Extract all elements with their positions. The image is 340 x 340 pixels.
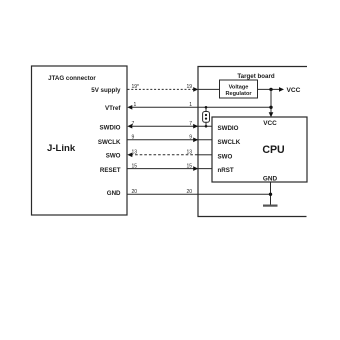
svg-text:9: 9 [189,135,192,141]
svg-text:SWO: SWO [218,154,233,161]
pin label 5V supply [91,87,121,94]
svg-text:5V supply: 5V supply [91,87,121,94]
JTAG connector title [48,75,96,82]
pin label SWO [106,153,121,160]
pin number 19* left [132,84,140,90]
svg-text:15: 15 [132,163,138,169]
Target board title [237,73,275,80]
svg-text:SWO: SWO [106,153,121,160]
voltage regulator box [220,80,258,98]
svg-text:nRST: nRST [218,167,234,174]
Target board outline (open right side) [198,67,307,217]
svg-text:VCC: VCC [287,87,301,94]
svg-text:1: 1 [134,102,137,108]
wire CPU GND down [270,182,272,205]
svg-text:13: 13 [132,150,138,156]
junction VTref/VCC node [269,106,272,109]
pin number 1 left [134,102,137,108]
svg-text:VCC: VCC [263,120,277,127]
pin number 9 right [189,135,192,141]
svg-text:15: 15 [186,163,192,169]
pin label SWCLK [98,139,121,146]
CPU label [262,144,284,156]
svg-text:1: 1 [189,102,192,108]
CPU pin VCC label [263,120,277,127]
svg-text:RESET: RESET [100,167,121,174]
pin number 13 left [132,150,138,156]
wire VTref [127,105,271,110]
wire SWDIO (bidirectional) [127,124,212,129]
wire RESET [128,166,213,171]
svg-text:19*: 19* [132,84,140,90]
svg-text:SWCLK: SWCLK [98,139,121,146]
pin number 15 right [186,163,192,169]
pin number 20 left [132,189,138,195]
svg-text:CPU: CPU [262,144,284,156]
pin number 13 right [186,150,192,156]
junction VCC output node [269,88,272,91]
svg-text:7: 7 [189,121,192,127]
wire VCC down to CPU [269,89,274,117]
svg-text:JTAG connector: JTAG connector [48,75,96,82]
CPU pin SWO label [218,154,233,161]
svg-text:20: 20 [132,189,138,195]
pin number 1 right [189,102,192,108]
svg-text:19: 19 [186,84,192,90]
svg-text:Target board: Target board [237,73,275,80]
pin number 15 left [132,163,138,169]
jumper JP1 (pull-up link SWDIO to VCC) [203,106,210,127]
svg-text:Voltage: Voltage [229,84,249,90]
CPU pin SWDIO label [218,125,239,132]
wire 5V to regulator [198,88,220,90]
wire 5V supply (dashed) [128,87,199,92]
pin number 9 left [132,135,135,141]
svg-text:7: 7 [132,121,135,127]
J-Link label [47,143,76,154]
pin label RESET [100,167,121,174]
pin number 7 right [189,121,192,127]
pin number 19 right [186,84,192,90]
CPU pin nRST label [218,167,234,174]
svg-text:Regulator: Regulator [225,91,252,97]
svg-text:GND: GND [263,176,278,183]
svg-text:GND: GND [107,190,121,197]
svg-text:13: 13 [186,150,192,156]
pin number 20 right [186,189,192,195]
pin label GND [107,190,121,197]
pin label VTref [105,105,121,112]
VCC net label [287,87,301,94]
svg-text:9: 9 [132,135,135,141]
svg-text:VTref: VTref [105,105,121,112]
svg-text:20: 20 [186,189,192,195]
junction GND node [269,193,272,196]
pin label SWDIO [100,125,121,132]
pin number 7 left [132,121,135,127]
CPU box [212,117,307,182]
svg-text:SWCLK: SWCLK [218,139,241,146]
svg-text:SWDIO: SWDIO [100,125,121,132]
wire SWO (dashed) [127,153,212,158]
svg-text:SWDIO: SWDIO [218,125,239,132]
ground symbol [263,205,278,207]
wire regulator output to VCC [258,87,285,92]
CPU pin SWCLK label [218,139,241,146]
svg-text:J-Link: J-Link [47,143,76,154]
wire GND [128,193,271,195]
JTAG connector box [32,66,128,215]
CPU pin GND label [263,176,278,183]
wire SWCLK [128,138,213,143]
